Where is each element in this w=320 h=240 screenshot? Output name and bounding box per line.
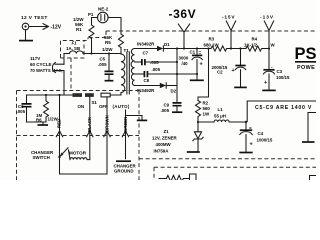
wire rail to R2 feed (198, 49, 209, 101)
svg-text:Z1: Z1 (164, 129, 170, 134)
ground (C9 chassis) (172, 111, 182, 113)
svg-text:+: + (250, 142, 253, 148)
ground (C3 chassis) (262, 89, 275, 91)
svg-text:D1: D1 (164, 42, 170, 47)
transformer T1 secondary winding (131, 49, 134, 86)
svg-text:.005: .005 (17, 109, 26, 114)
ground (C4 chassis) (239, 152, 252, 154)
component (cut off bottom right of resistor) (190, 174, 197, 180)
svg-text:1W: 1W (203, 112, 210, 117)
label MOTOR (69, 151, 87, 156)
capacitor C4 label (257, 131, 273, 143)
svg-text:SWITCH: SWITCH (33, 155, 50, 160)
dashed line lower right 1 (139, 158, 316, 160)
svg-text:R4: R4 (252, 37, 258, 42)
svg-text:+: + (200, 62, 203, 68)
wire plug neutral down to switch line (63, 71, 65, 96)
svg-text:C9: C9 (164, 103, 170, 108)
svg-text:.005: .005 (152, 67, 161, 72)
svg-text:1000/15: 1000/15 (257, 137, 273, 142)
label IN3492R D2 (137, 88, 177, 94)
capacitor C1 (192, 49, 203, 80)
svg-text:3000: 3000 (179, 56, 189, 61)
label BROWN (104, 115, 109, 132)
inductor L1 label (214, 107, 226, 119)
wire -36V rail (184, 47, 211, 49)
svg-text:117V: 117V (30, 56, 40, 61)
svg-text:GROUND: GROUND (114, 169, 134, 174)
label BLACK (87, 116, 92, 132)
svg-text:RED: RED (57, 119, 62, 128)
wire GREEN lead changer ground (122, 110, 128, 159)
resistor R4 label (244, 37, 276, 48)
dashed boundary lamp drop (88, 31, 106, 38)
svg-text:/40: /40 (182, 61, 189, 66)
ground (Z1 chassis) (187, 151, 200, 153)
svg-text:IN3492R: IN3492R (137, 42, 155, 47)
dashed line lower right 2 (154, 166, 316, 168)
transformer T1 core (127, 52, 129, 94)
node -13V arrow (264, 21, 273, 49)
node -12V label (51, 25, 62, 31)
ground (test point chassis) (19, 40, 33, 42)
wire S1 to T1 primary bottom (110, 93, 121, 96)
dashed box corner bottom (153, 167, 155, 180)
wire rail R3 to R4 (227, 47, 246, 49)
svg-text:BLACK: BLACK (87, 116, 92, 132)
svg-text:S1: S1 (92, 100, 98, 105)
capacitor C9 (173, 100, 182, 112)
capacitor C6 (22, 95, 32, 122)
note box C5-C9 ARE 1400 V (247, 101, 316, 122)
svg-text:NE-2: NE-2 (98, 7, 109, 12)
svg-text:BROWN: BROWN (104, 115, 109, 132)
label CHANGER GROUND (114, 164, 137, 174)
wire D2 to junction (166, 85, 177, 87)
capacitor C2 (232, 49, 246, 87)
wire secondary top to D1 (135, 48, 158, 50)
node 12V TEST terminal label (21, 15, 48, 21)
svg-text:60 CYCLE: 60 CYCLE (30, 62, 52, 67)
resistor R1 (89, 25, 94, 39)
wire plug hot to fuse (64, 54, 70, 65)
svg-text:PS: PS (295, 45, 317, 63)
wire C7 to rectifier junction (145, 61, 178, 63)
svg-text:R3: R3 (209, 37, 215, 42)
svg-text:55 μH: 55 μH (214, 114, 226, 119)
switch S1 contact 2 (85, 93, 94, 97)
capacitor C2 label (212, 65, 228, 75)
ground (C5 chassis) (105, 80, 114, 82)
motor winding (69, 150, 90, 160)
svg-text:L1: L1 (218, 107, 224, 112)
resistor R4 (246, 46, 270, 51)
box corner (bottom right, cut off) (310, 176, 317, 181)
svg-text:C3: C3 (277, 69, 283, 74)
wire BLACK lead motor (87, 97, 93, 160)
dashed boundary top (power supply border) (106, 30, 316, 32)
svg-text:IN3492R: IN3492R (137, 88, 155, 93)
svg-text:F1: F1 (72, 41, 78, 46)
capacitor C8 (144, 71, 147, 77)
transformer T1 label (124, 48, 130, 53)
wire lamp P1 to R5 top (108, 18, 121, 35)
svg-text:1/2W: 1/2W (102, 47, 113, 52)
svg-text:POWE: POWE (297, 65, 315, 71)
dashed boundary left vertical (16, 91, 18, 181)
resistor R3 label (204, 37, 220, 48)
terminal TP (12V test point) (22, 23, 29, 30)
node -15V arrow (226, 21, 235, 49)
dashed boundary right vertical (138, 91, 140, 181)
svg-text:12V, ZENER: 12V, ZENER (152, 136, 178, 141)
svg-text:-12V: -12V (51, 25, 62, 31)
transformer T1 primary winding (121, 54, 125, 95)
changer switch lever (58, 148, 68, 158)
svg-text:MOTOR: MOTOR (69, 151, 87, 156)
svg-text:D2: D2 (171, 89, 177, 94)
net -15V label (222, 15, 235, 21)
lamp P1 (NE-2 neon) (98, 12, 109, 23)
resistor R3 (211, 46, 227, 51)
svg-text:400MW: 400MW (156, 142, 172, 147)
resistor R1 value label (73, 17, 84, 32)
svg-text:1K-1/2: 1K-1/2 (244, 42, 258, 47)
wire R5 bottom to AC line (120, 48, 122, 55)
svg-text:12 V TEST: 12 V TEST (21, 15, 48, 21)
resistor R5 (119, 34, 124, 48)
svg-text:R5: R5 (105, 40, 111, 45)
svg-text:R6: R6 (36, 118, 42, 123)
capacitor C7 label (143, 51, 160, 65)
label ON S1 OFF (AUTO) (78, 100, 130, 109)
AC plug P (52, 62, 64, 72)
svg-text:+: + (232, 68, 235, 74)
svg-text:=: = (199, 50, 202, 55)
capacitor C8 label (144, 67, 161, 83)
resistor R6 label (36, 113, 59, 123)
svg-text:C1: C1 (190, 50, 196, 55)
wire R1 top to lamp P1 (92, 18, 98, 26)
dashed changer interface line (17, 135, 140, 137)
net -13V label (260, 15, 274, 21)
wire secondary tap to C8 (135, 73, 145, 75)
resistor (cut off bottom) (159, 175, 189, 181)
svg-text:1A, SB: 1A, SB (66, 46, 80, 51)
svg-text:=: = (249, 126, 252, 131)
svg-text:C4: C4 (258, 131, 264, 136)
wire R1 bottom to AC line (90, 39, 92, 55)
wire secondary bottom to D2 (135, 85, 160, 87)
dashed fuse box F1 (61, 38, 89, 59)
wire right edge component (cut off) (302, 113, 316, 143)
svg-text:+: + (264, 80, 267, 86)
svg-text:R2: R2 (203, 101, 209, 106)
switch S1 contact 3 (101, 93, 110, 97)
svg-text:C2: C2 (217, 70, 223, 75)
svg-text:GREEN: GREEN (123, 117, 128, 132)
capacitor C9 label (161, 103, 170, 114)
svg-text:C5: C5 (100, 57, 106, 62)
switch S1 contact 1 (73, 93, 83, 97)
wire D1 to -36V rail (163, 47, 185, 49)
svg-text:C8: C8 (144, 78, 150, 83)
svg-text:R1: R1 (76, 27, 82, 32)
wire rectifier junction column (176, 49, 178, 101)
fuse F1 (70, 51, 84, 54)
capacitor C5 label (98, 57, 107, 68)
wire L1 to C4 node (229, 121, 247, 123)
ground (R6/C6 chassis) (38, 122, 49, 125)
svg-text:C5-C9 ARE 1400 V: C5-C9 ARE 1400 V (255, 105, 312, 111)
svg-text:C7: C7 (143, 51, 149, 56)
lamp P1 NE-2 labels (88, 7, 109, 18)
diode D2 (160, 83, 166, 88)
capacitor C4 (240, 122, 253, 152)
resistor R6 (44, 95, 49, 122)
svg-text:.005: .005 (98, 62, 107, 67)
svg-text:IN759A: IN759A (154, 149, 170, 154)
label RED (57, 119, 62, 128)
ground (C2 chassis) (234, 86, 247, 88)
svg-text:P1: P1 (88, 12, 94, 17)
inductor L1 (214, 120, 229, 122)
zener Z1 label (152, 129, 178, 154)
wire fuse to T1 primary top (83, 53, 121, 55)
wire test point to ground (25, 30, 27, 40)
capacitor C7 (142, 59, 145, 65)
svg-text:-36V: -36V (169, 7, 197, 21)
wire BROWN lead changer common (104, 97, 110, 174)
capacitor C3 (263, 49, 274, 90)
wire C8 to junction and C1 ground column (147, 73, 198, 75)
svg-text:-13V: -13V (260, 15, 274, 21)
capacitor C6 label (17, 104, 26, 114)
label PS (page heading, cut off) (295, 45, 317, 71)
node -36V arrow (178, 24, 189, 49)
svg-text:(AUTO): (AUTO) (113, 104, 130, 109)
svg-text:-15V: -15V (222, 15, 235, 21)
wire changer switch to brown return (60, 157, 108, 174)
resistor R5 value label (102, 35, 113, 52)
wire RED lead changer switch (56, 95, 62, 157)
label CHANGER SWITCH (31, 150, 54, 160)
wire C6 to R6 bottom (27, 121, 47, 123)
svg-text:100/15: 100/15 (276, 75, 290, 80)
wire secondary tap to C7 (135, 61, 142, 63)
label IN3492R D1 (137, 42, 170, 48)
label GREEN (123, 117, 128, 132)
svg-text:.005: .005 (161, 108, 170, 113)
ground (changer ground bar) (116, 160, 131, 162)
resistor R2 label (203, 101, 211, 117)
svg-text:ON: ON (78, 104, 85, 109)
wire AC line to switch S1 (27, 94, 73, 96)
ground (auto branch chassis) (137, 119, 147, 121)
svg-text:560: 560 (203, 106, 211, 111)
capacitor C3 label (271, 65, 290, 80)
zener Z1 (193, 122, 203, 151)
net -36V label (169, 7, 197, 21)
fuse F1 labels (66, 41, 80, 52)
capacitor C1 label (179, 50, 202, 66)
ground (C1 chassis) (190, 79, 204, 81)
dashed boundary horizontal mid (17, 90, 140, 92)
wire R2 to L1 node (197, 119, 214, 124)
capacitor C5 (105, 52, 114, 80)
diode D1 (157, 46, 163, 51)
label 117V 60 CYCLE 70 WATTS MAX (30, 56, 63, 73)
wire AUTO branch to chassis (126, 116, 143, 120)
wire test point to -12V arrow (29, 24, 49, 30)
dashed boundary fuse to line (70, 58, 72, 91)
resistor R2 (196, 101, 201, 119)
